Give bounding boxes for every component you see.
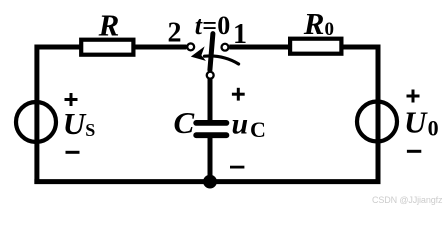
node 1 terminal circle xyxy=(222,44,229,51)
svg-text:2: 2 xyxy=(168,18,182,49)
resistor R body xyxy=(81,40,133,55)
svg-text:CSDN @JJjiangfz: CSDN @JJjiangfz xyxy=(372,195,443,205)
wire capacitor bottom (plate to bottom wire) xyxy=(208,136,213,182)
US plus sign xyxy=(65,93,78,106)
junction node dot xyxy=(203,175,217,189)
node 2 terminal circle xyxy=(187,43,194,50)
wire bottom horizontal xyxy=(34,179,380,184)
svg-text:1: 1 xyxy=(233,19,247,50)
wire right vertical xyxy=(376,45,381,185)
wire node 1 to R0 xyxy=(229,45,290,50)
wire R0 to top-right corner xyxy=(342,45,381,50)
US minus sign xyxy=(66,151,80,154)
capacitor minus sign xyxy=(230,166,244,169)
U0 minus sign xyxy=(407,150,421,153)
switch pivot terminal circle xyxy=(207,72,214,79)
capacitor plus sign xyxy=(232,88,245,101)
wire capacitor top (switch pivot to plate) xyxy=(208,79,213,123)
switch throw arc xyxy=(205,56,239,64)
svg-text:R: R xyxy=(98,8,120,43)
svg-text:t=0: t=0 xyxy=(195,11,231,40)
capacitor C top plate xyxy=(196,120,226,126)
wire top-left horizontal xyxy=(35,45,82,50)
capacitor C bottom plate xyxy=(196,132,226,138)
resistor R0 body xyxy=(290,39,341,54)
switch arrowhead xyxy=(191,46,206,61)
wire R to node 2 xyxy=(134,45,187,50)
voltage source U0 circle xyxy=(357,102,397,142)
switch blade xyxy=(210,34,213,70)
wire left vertical xyxy=(34,45,39,185)
U0 plus sign xyxy=(407,90,420,103)
svg-text:C: C xyxy=(174,105,195,140)
voltage source US circle xyxy=(16,102,56,142)
